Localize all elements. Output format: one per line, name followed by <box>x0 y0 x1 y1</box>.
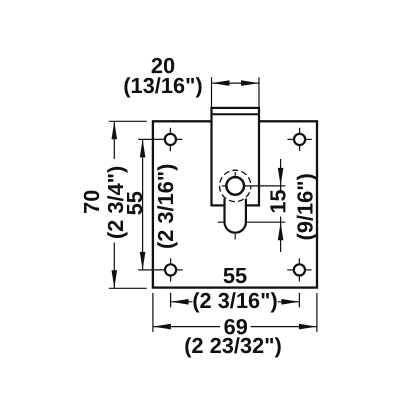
dashed screw-head clearance circle <box>220 170 251 201</box>
keyhole circle top centreline tick <box>234 172 236 178</box>
keyhole circle <box>226 177 244 195</box>
label (2 3/4") (rotated) <box>107 167 127 238</box>
label 15 (rotated) <box>270 190 285 212</box>
leader from keyhole circle centre to 15-dimension <box>244 185 285 187</box>
label (2 23/32") <box>185 337 280 357</box>
dimension 55 vertical: extension line from top-left hole <box>138 138 165 140</box>
label 55 bottom <box>224 268 247 283</box>
hook tab fold line <box>212 113 260 115</box>
dimension 55 horizontal: dimension line <box>171 301 300 303</box>
dimension 69: extension line below left plate corner <box>152 293 154 332</box>
keyhole circle left centreline tick <box>222 185 228 187</box>
dimension 20: dimension line <box>212 82 260 84</box>
dimension 55 vertical: bottom arrowhead <box>140 252 146 270</box>
dimension 70: top extension line <box>109 120 147 122</box>
dimension 20: right extension line <box>258 77 260 107</box>
halo behind label (2 3/16") breaking the 55 dimension line <box>193 294 278 312</box>
dimension 55 horizontal: extension line below left hole <box>170 293 172 308</box>
dimension 15: upper tail line <box>280 159 282 186</box>
dimension 55 horizontal: right arrowhead <box>281 299 299 305</box>
mounting hole bottom-left with centreline ticks <box>165 258 183 281</box>
dimension 20: left arrowhead <box>212 80 230 86</box>
label (9/16") (rotated) <box>297 174 317 239</box>
leader from slot bottom, left segment <box>218 221 224 223</box>
dimension 55 vertical: dimension line <box>142 139 144 270</box>
label (13/16") <box>124 77 201 97</box>
halo behind label (2 3/4") breaking the 70 dimension line <box>110 159 119 243</box>
mounting hole bottom-right with centreline ticks <box>287 258 311 281</box>
dimension 55 horizontal: left arrowhead <box>171 299 189 305</box>
dimension 69: right arrowhead <box>299 324 317 330</box>
label 69 <box>224 319 247 334</box>
dimension 70: dimension line <box>113 121 115 288</box>
dimension 69: extension line below right plate corner <box>316 293 318 332</box>
dimension 15: lower arrowhead pointing up <box>278 222 284 240</box>
label (2 3/16") left (rotated) <box>157 165 177 248</box>
dimension 15: lower tail line <box>280 222 282 252</box>
halo behind label 69 breaking the 69 dimension line <box>220 319 251 337</box>
mounting hole top-left with centreline ticks <box>165 128 183 151</box>
dimension 20: left extension line <box>211 77 213 107</box>
dimension 70: top arrowhead <box>112 121 118 139</box>
hook tab outline <box>212 108 260 205</box>
dimension 55 vertical: extension line from bottom-left hole <box>138 269 165 271</box>
label 70 (rotated) <box>84 191 99 213</box>
dimension 15: upper arrowhead pointing down <box>278 168 284 186</box>
label 20 <box>152 58 175 73</box>
dimension 70: bottom extension line <box>109 287 147 289</box>
dimension 70: bottom arrowhead <box>112 270 118 288</box>
label 55 left (rotated) <box>127 192 142 215</box>
dimension 55 vertical: top arrowhead <box>140 139 146 157</box>
dimension 20: right arrowhead <box>241 80 259 86</box>
mounting hole top-right with centreline ticks <box>287 128 311 151</box>
dimension 69: dimension line <box>153 326 317 328</box>
leader from slot bottom to 15-dimension, right segment <box>247 221 285 223</box>
label (2 3/16") bottom <box>193 292 276 312</box>
slot bottom centreline tick <box>234 234 236 240</box>
keyhole slot <box>225 199 246 233</box>
dimension 15: span line <box>280 186 282 222</box>
dimension 55 horizontal: extension line below right hole <box>298 293 300 308</box>
dimension 69: left arrowhead <box>153 324 171 330</box>
mounting plate outline <box>153 121 317 287</box>
halo behind label 15 breaking the 15 dimension line <box>270 191 287 217</box>
